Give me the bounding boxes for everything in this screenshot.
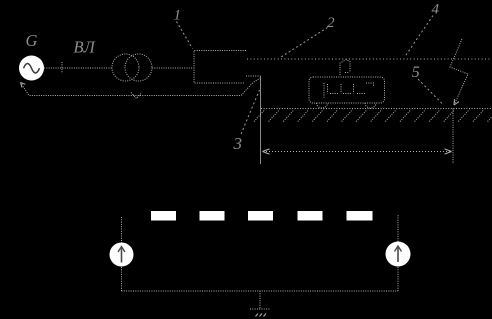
electric locomotive body [309,77,385,103]
return feeder vertical line (net 3) [260,76,262,164]
track-circuit rail segment dash 3 [248,211,273,221]
current source I2 [386,242,411,267]
rail line (net 5) [261,108,491,110]
dimension arrow right [445,149,452,154]
svg-text:G: G [26,31,38,50]
bottom wire [122,290,399,292]
arrow mark at generator end of return wire [21,83,26,88]
wire transformer to substation box [152,67,194,69]
track-circuit rail segment dash 2 [200,211,225,221]
svg-text:4: 4 [432,2,440,18]
track-circuit rail segment dash 4 [298,211,323,221]
wire right branch upper [397,214,399,242]
contact wire (net 2) [247,58,491,60]
ground bar [250,308,271,310]
lightning stroke 4 [450,39,468,105]
svg-text:5: 5 [412,64,420,81]
wire right branch lower [397,267,399,291]
dimension arrow left [263,149,270,154]
transformer T1 circle 2 [125,54,152,81]
ground stem [259,291,261,309]
current source I1 [110,243,134,267]
tick on wire [61,62,63,74]
stub from box to feeder [246,75,261,77]
svg-text:3: 3 [233,134,243,153]
leader for label 2 [280,28,328,59]
transformer T1 circle 1 [112,54,139,81]
svg-text:2: 2 [327,15,335,31]
ground hatching under rail [254,110,492,122]
track-circuit rail segment dash 5 [347,211,373,221]
generator G (AC source) [19,56,44,81]
leader for label 5 [418,79,443,104]
wire left branch lower [121,267,123,291]
lightning arrowhead [454,99,459,105]
V junction mark under transformer [131,93,142,99]
leader for label 1 [177,22,193,49]
svg-text:1: 1 [174,8,182,24]
locomotive wheel right [365,103,376,108]
leader for label 3 [241,90,260,134]
return wire from generator [21,78,261,96]
pantograph P [340,60,350,76]
wire G to transformer [44,67,113,69]
locomotive wheel left [317,103,328,108]
ground hatch marks [256,314,267,317]
svg-text:ВЛ: ВЛ [74,38,96,57]
track-circuit rail segment dash 1 [151,211,176,221]
leader for label 4 [405,16,433,57]
wire left branch upper [121,217,123,243]
extension line right of block section [452,109,454,165]
substation box 1 [194,51,246,84]
locomotive inner detail lines [324,83,374,98]
block-section dimension line [263,151,451,153]
